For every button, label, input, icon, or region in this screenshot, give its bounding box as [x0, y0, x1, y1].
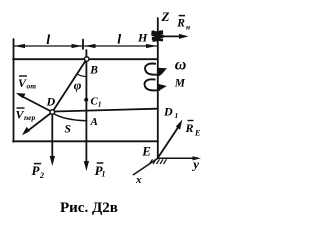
svg-text:пер: пер — [24, 113, 36, 122]
velocity vector V_ot from D up-left — [16, 93, 53, 112]
svg-text:B: B — [89, 64, 98, 76]
frame left edge — [13, 39, 15, 142]
svg-text:x: x — [135, 174, 142, 186]
svg-text:1: 1 — [175, 111, 179, 120]
node circle B — [84, 57, 89, 62]
svg-text:Z: Z — [161, 9, 170, 24]
label P2 with bar — [32, 163, 45, 180]
axis x — [133, 158, 158, 175]
frame top edge — [13, 58, 158, 60]
svg-text:φ: φ — [74, 78, 82, 93]
svg-text:от: от — [27, 82, 37, 91]
svg-text:S: S — [65, 124, 71, 136]
axis y — [158, 156, 201, 160]
rod B-D — [52, 59, 86, 112]
svg-text:2: 2 — [39, 171, 44, 180]
arrow P2 — [50, 156, 55, 166]
reaction force R_H arrow — [159, 34, 189, 39]
svg-text:l: l — [117, 33, 121, 48]
point C1 dot — [84, 98, 88, 102]
svg-text:Рис. Д2в: Рис. Д2в — [60, 200, 118, 216]
svg-text:E: E — [141, 143, 151, 158]
label V_per with bar — [16, 108, 36, 123]
svg-text:y: y — [191, 156, 199, 171]
label R_H with bar — [176, 16, 190, 32]
dimension arrowheads — [14, 44, 157, 48]
svg-text:A: A — [90, 116, 98, 128]
svg-text:H: H — [137, 30, 148, 44]
label V_ot with bar — [18, 76, 36, 91]
velocity vector V_per from D down-left — [22, 112, 52, 135]
svg-text:1: 1 — [102, 170, 106, 179]
node circle D — [50, 110, 55, 115]
rotation arrow M (moment) — [145, 79, 167, 90]
groove arc S from D to A — [54, 114, 87, 121]
arrow P1 — [84, 161, 89, 171]
frame bottom edge — [13, 140, 158, 142]
rod B down through C1 and A, force line P1 — [85, 61, 87, 162]
svg-text:ω: ω — [175, 57, 187, 74]
label D1 — [163, 105, 178, 121]
force line P2 from D down — [51, 114, 53, 157]
axis z shaft — [157, 18, 159, 158]
svg-text:M: M — [174, 77, 186, 89]
svg-text:E: E — [194, 129, 200, 138]
svg-text:D: D — [163, 105, 173, 119]
label R_E with bar — [185, 121, 201, 138]
extension stub above B — [85, 50, 87, 57]
label C1 — [91, 96, 102, 109]
svg-text:R: R — [185, 121, 194, 135]
svg-text:н: н — [186, 22, 190, 31]
reaction force R_E arrow — [158, 120, 182, 158]
svg-text:D: D — [46, 95, 56, 109]
bearing H scribble — [152, 31, 164, 42]
svg-text:l: l — [46, 33, 50, 48]
label P1 with bar — [95, 163, 106, 179]
rod D to axis (D1) — [55, 109, 158, 112]
bearing E hatching — [150, 159, 167, 164]
rotation arrow omega — [145, 64, 167, 77]
svg-text:R: R — [176, 18, 185, 30]
dimension line l left — [15, 45, 157, 47]
dimension tick at B — [82, 40, 84, 50]
angle phi arc — [77, 74, 86, 77]
svg-text:1: 1 — [98, 100, 102, 109]
